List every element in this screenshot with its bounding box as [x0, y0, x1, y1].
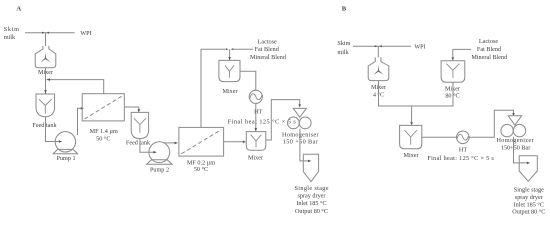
- wire mixer A1 down to feed tank: [45, 68, 47, 94]
- homogenizer (B): [508, 116, 522, 125]
- svg-text:50 °C: 50 °C: [194, 166, 208, 173]
- svg-text:Inlet 185 °C: Inlet 185 °C: [296, 200, 326, 207]
- svg-text:Pump 1: Pump 1: [56, 155, 75, 162]
- mixer B2: [441, 61, 465, 82]
- wire MF 0.2 to mixer A3: [224, 141, 244, 143]
- wire skim milk to junction (A): [25, 32, 75, 34]
- wire pump 1 to MF 1.4: [78, 108, 82, 135]
- svg-text:Skim: Skim: [337, 40, 350, 47]
- membrane filter MF 0.2 um: [179, 127, 224, 156]
- wire mixer A3 to homogeniser: [266, 100, 300, 140]
- svg-text:Fat Blend: Fat Blend: [477, 46, 502, 53]
- svg-text:Output 80 °C: Output 80 °C: [512, 209, 545, 216]
- svg-text:HT: HT: [459, 146, 467, 153]
- svg-text:150+50 Bar: 150+50 Bar: [501, 145, 530, 152]
- wire feed tank 2 to pump 2: [140, 139, 155, 153]
- wire MF 1.4 to feed tank 2: [124, 107, 139, 112]
- pump P2: [149, 142, 170, 163]
- svg-text:B: B: [342, 5, 347, 12]
- junction arrows above mixer A1: [42, 32, 49, 34]
- mixer A2: [219, 60, 240, 81]
- svg-text:Skim: Skim: [4, 26, 19, 33]
- svg-text:A: A: [16, 5, 21, 12]
- svg-text:WPI: WPI: [414, 43, 425, 50]
- svg-text:Final heat 125 °C × 5 s: Final heat 125 °C × 5 s: [228, 118, 297, 125]
- wire skim milk to junction (B): [353, 45, 411, 47]
- svg-text:Mixer: Mixer: [248, 154, 263, 161]
- svg-text:Mixer: Mixer: [222, 88, 237, 95]
- svg-text:Lactose: Lactose: [258, 39, 277, 46]
- wire junction down into mixer B1: [377, 46, 379, 57]
- feed tank 1: [36, 94, 55, 117]
- feed tank 2: [131, 112, 148, 138]
- mixer A1: [35, 46, 56, 68]
- wire homogenizer to spray dryer (B): [514, 137, 527, 163]
- wire junction down into mixer A1: [45, 33, 47, 46]
- membrane filter MF 1.4 um: [82, 94, 124, 121]
- wire feed tank 1 to pump 1: [46, 117, 62, 142]
- wire HT down into mixer A3: [255, 103, 257, 131]
- svg-text:milk: milk: [4, 34, 16, 41]
- mixer B3: [400, 125, 422, 148]
- wire homogeniser to spray dryer (A): [300, 129, 308, 161]
- mixer A3: [246, 132, 265, 151]
- wire junction down into mixer A2: [229, 49, 231, 60]
- svg-text:50 °C: 50 °C: [96, 136, 110, 143]
- svg-text:Single stage: Single stage: [295, 185, 329, 192]
- svg-text:Mineral Blend: Mineral Blend: [250, 54, 287, 61]
- svg-text:Fat Blend: Fat Blend: [255, 46, 280, 53]
- wire lactose blend into mixer B2: [453, 49, 471, 58]
- wire HT to homogenizer (B): [469, 110, 513, 137]
- svg-text:Lactose: Lactose: [479, 38, 498, 45]
- svg-text:milk: milk: [337, 49, 349, 56]
- svg-text:Homogenizer: Homogenizer: [497, 137, 534, 144]
- wire mixer B3 to HT: [422, 136, 457, 138]
- svg-text:spray dryer: spray dryer: [297, 193, 325, 200]
- svg-text:Output 80 °C: Output 80 °C: [295, 208, 328, 215]
- svg-text:Feed tank: Feed tank: [126, 140, 151, 147]
- heat treatment HT (A): [249, 90, 262, 103]
- svg-text:Feed tank: Feed tank: [32, 122, 57, 129]
- wire recirculation from MF 1.4 top back to feed line: [47, 80, 104, 94]
- svg-text:MF 1.4 µm: MF 1.4 µm: [90, 128, 118, 135]
- junction arrows above mixer B1: [375, 45, 382, 47]
- svg-text:Mixer: Mixer: [403, 152, 418, 159]
- svg-text:Mineral Blend: Mineral Blend: [471, 54, 508, 61]
- wire lactose blend to junction (A): [234, 48, 253, 50]
- svg-text:Pump 2: Pump 2: [150, 166, 169, 173]
- wire mixer A2 to HT: [241, 71, 256, 90]
- wire MF 0.2 top up to lactose junction: [201, 49, 225, 127]
- wire pump 2 to MF 0.2: [165, 142, 178, 144]
- mixer B1: [368, 57, 389, 80]
- svg-text:Inlet 185 °C: Inlet 185 °C: [514, 202, 544, 209]
- heat treatment HT (B): [457, 131, 470, 144]
- svg-text:spray dryer: spray dryer: [515, 194, 543, 201]
- spray dryer (B): [519, 156, 537, 182]
- homogeniser (A): [293, 108, 306, 117]
- svg-text:Final heat: 125 °C × 5 s: Final heat: 125 °C × 5 s: [427, 155, 494, 162]
- pump P1: [55, 132, 75, 152]
- wire mixers B1 and B2 join into mixer B3: [379, 81, 454, 123]
- svg-text:WPI: WPI: [80, 30, 91, 37]
- svg-text:Single stage: Single stage: [514, 187, 544, 194]
- spray dryer (A): [303, 154, 318, 182]
